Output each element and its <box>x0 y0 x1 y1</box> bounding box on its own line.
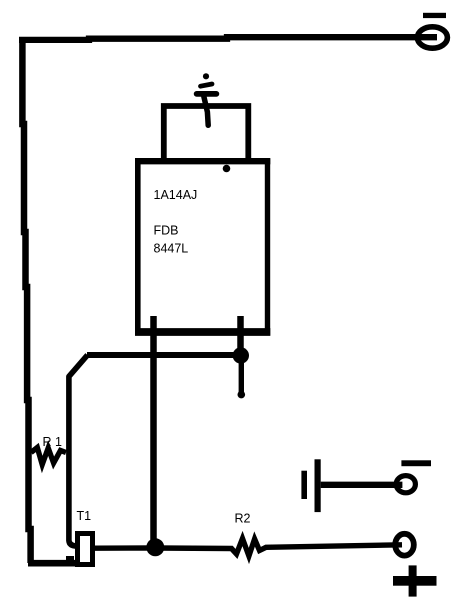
terminal B- (top right) <box>417 27 447 48</box>
wire bottom left horizontal <box>28 560 75 567</box>
wire stub bump before T1 <box>66 556 74 564</box>
svg-text:T1: T1 <box>77 509 92 523</box>
IC pin left <box>150 316 157 547</box>
terminal minus label (top right) <box>423 13 446 18</box>
capacitor tall plate <box>315 459 321 512</box>
junction dot under IC right pin <box>233 347 249 363</box>
svg-text:1A14AJ: 1A14AJ <box>154 188 198 202</box>
plus sign <box>393 565 437 596</box>
IC pin right <box>237 316 244 355</box>
trimmer symbol stem into box <box>204 97 208 126</box>
svg-text:FDB: FDB <box>154 223 179 237</box>
minus label (middle right) <box>401 460 431 466</box>
junction dot on bottom wire <box>146 538 164 556</box>
svg-text:8447L: 8447L <box>154 242 189 256</box>
wire mid horizontal <box>87 352 241 358</box>
wire capacitor to terminal <box>321 482 403 488</box>
svg-text:R 1: R 1 <box>43 435 63 449</box>
terminal B+ (bottom right) <box>395 534 414 556</box>
wire left vertical <box>22 37 30 563</box>
wire top horizontal <box>19 37 437 40</box>
small box on top of IC <box>164 106 249 158</box>
IC box U1 <box>135 159 270 336</box>
trimmer symbol wide bar <box>197 91 217 97</box>
capacitor short plate <box>301 471 307 499</box>
stub below junction <box>239 355 244 395</box>
trimmer symbol small dash <box>201 84 213 86</box>
transistor T1 <box>78 534 93 565</box>
trimmer symbol dot <box>203 73 209 79</box>
stub tip <box>238 391 246 399</box>
wire diagonal bend and left drop to T1 <box>69 355 88 546</box>
svg-text:R2: R2 <box>235 512 251 526</box>
resistor R1 <box>31 448 66 465</box>
wire bottom right with resistor R2 <box>95 539 402 557</box>
dot inside IC box <box>223 165 231 173</box>
terminal minus (middle right) <box>396 476 415 493</box>
